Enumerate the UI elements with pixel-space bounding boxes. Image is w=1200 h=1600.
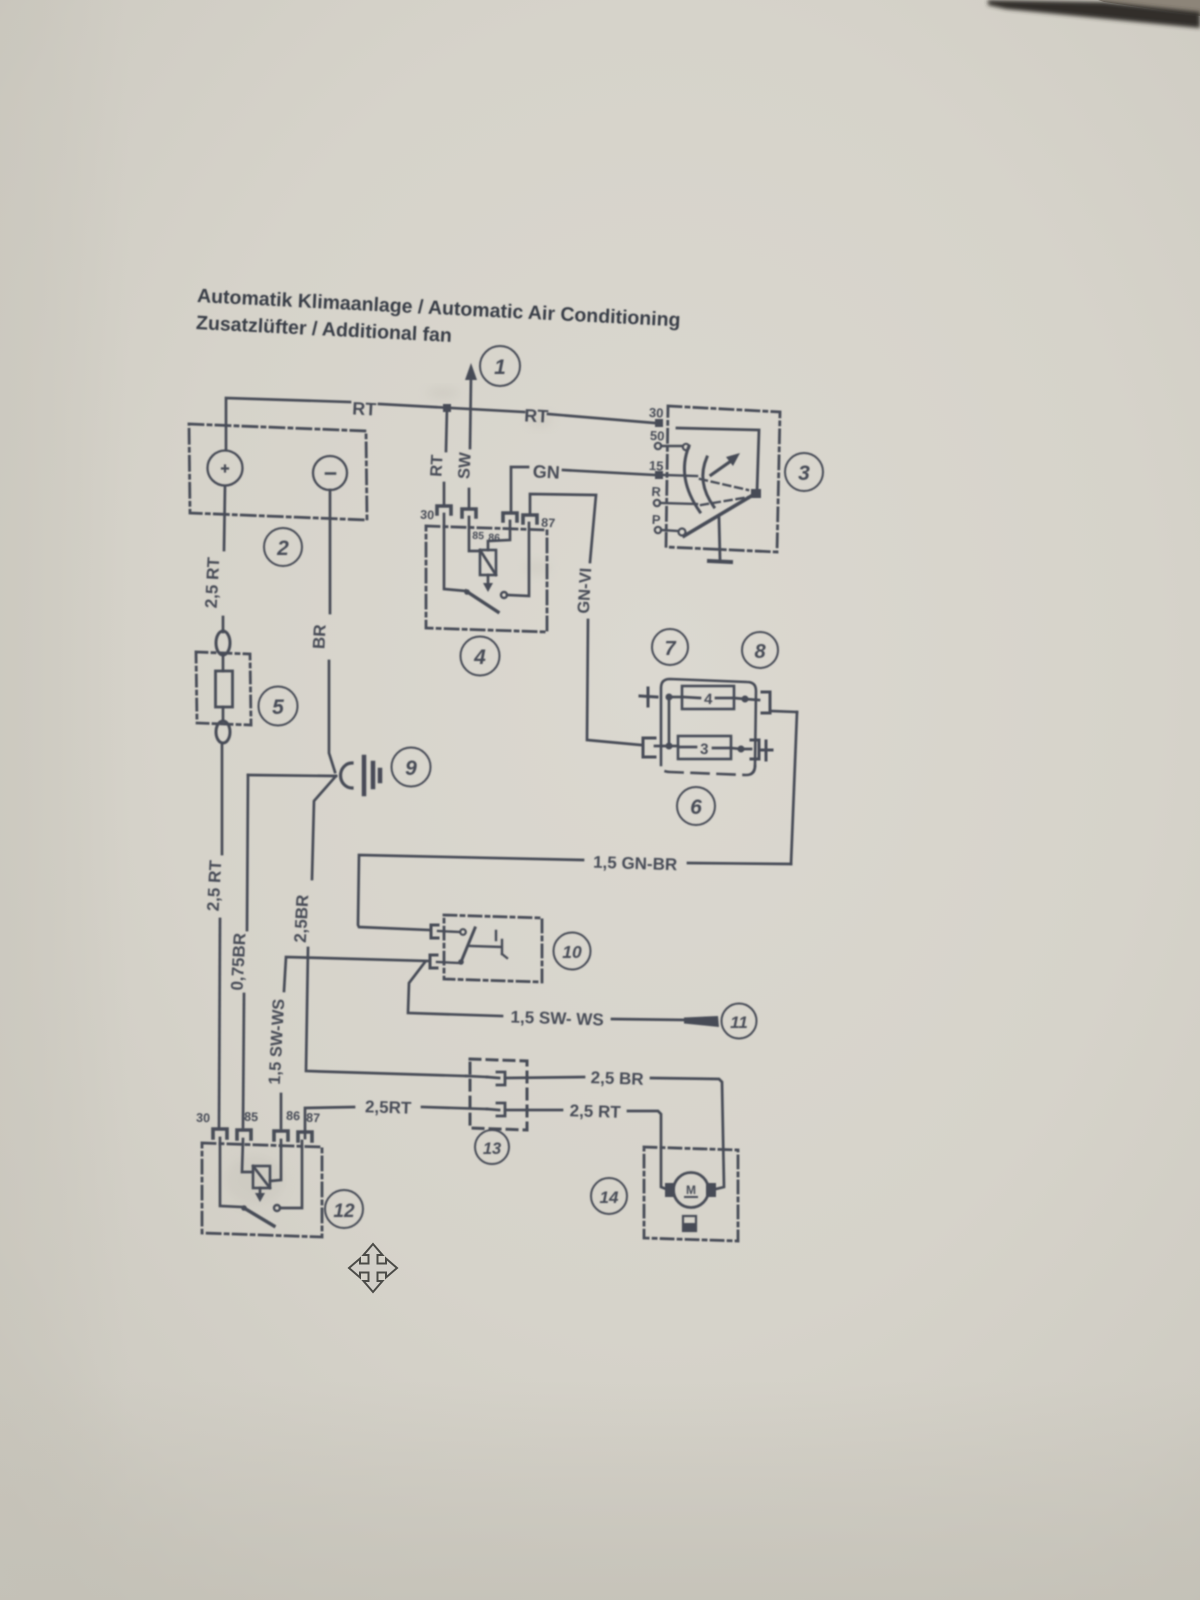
wire GN stub from relay4 86	[511, 467, 528, 513]
fuse 3 right connectors	[751, 740, 759, 759]
svg-text:GN-VI: GN-VI	[575, 567, 595, 614]
wire RT drop to relay4 30	[446, 408, 447, 451]
svg-text:30: 30	[196, 1111, 210, 1125]
fuse 5 box	[196, 652, 251, 725]
svg-text:5: 5	[272, 696, 284, 719]
svg-text:3: 3	[798, 462, 810, 485]
switch 10 internals	[438, 931, 460, 932]
battery minus terminal	[313, 456, 347, 490]
svg-text:R: R	[651, 484, 662, 499]
wire fuse4 output down to GN-BR run	[791, 712, 797, 864]
relay 4 box	[426, 526, 547, 632]
node dot left of fuse 3	[666, 743, 673, 750]
wire GN-VI from relay4 87 down	[530, 494, 596, 562]
circle 7	[652, 629, 688, 665]
title	[196, 285, 681, 347]
ignition wiper arcs	[684, 446, 700, 512]
svg-text:SW: SW	[455, 452, 474, 480]
svg-text:4: 4	[704, 691, 714, 708]
wire 2,5BR from connector9 down	[312, 776, 336, 879]
circle 1	[480, 346, 520, 386]
ignition arrow	[711, 461, 731, 475]
fuse 3	[669, 745, 678, 748]
wire GN to ignition 15	[563, 470, 655, 475]
svg-text:86: 86	[488, 532, 500, 545]
wire connector9 horizontal run	[248, 775, 336, 776]
circle 3	[785, 453, 823, 491]
svg-text:87: 87	[306, 1111, 320, 1125]
node dot right of fuse 4	[742, 696, 749, 703]
wire 2,5RT long down to relay12	[221, 743, 224, 854]
svg-text:85: 85	[244, 1110, 258, 1124]
svg-text:2,5RT: 2,5RT	[365, 1097, 412, 1117]
relay 12 box	[202, 1143, 322, 1237]
circle 6	[677, 787, 715, 825]
circle 5	[259, 687, 298, 726]
connector 9	[341, 757, 380, 794]
circle 8	[742, 632, 778, 668]
wire 1,5 GN-BR run	[688, 863, 791, 864]
svg-text:RT: RT	[352, 398, 377, 419]
fuse 5 element	[222, 655, 225, 721]
circle 10	[554, 933, 591, 970]
wire SW-WS from switch10 lower to left column	[284, 957, 430, 991]
svg-text:RT: RT	[427, 454, 446, 477]
wire 2,5BR into connector 13 upper	[466, 1076, 487, 1077]
connector 13 box	[470, 1059, 527, 1130]
faint smudges	[427, 388, 459, 398]
svg-text:2,5 RT: 2,5 RT	[204, 859, 226, 912]
wire 2,5RT from relay12 87 up and right	[305, 1107, 354, 1138]
node dot right of fuse 3	[738, 746, 745, 753]
circle 2	[264, 528, 302, 566]
svg-text:2,5 BR: 2,5 BR	[590, 1068, 643, 1089]
vertical link fuse4-fuse3 input	[668, 697, 671, 746]
svg-text:4: 4	[473, 646, 486, 669]
wire 2,5 RT from 13 to fan motor	[505, 1109, 562, 1112]
svg-text:10: 10	[562, 942, 582, 962]
wire 2,5RT battery to fuse	[224, 486, 225, 550]
node junction dot	[443, 404, 451, 412]
ignition lever from P	[684, 495, 753, 536]
wire BR battery minus down	[329, 490, 332, 613]
wire 0,75BR from connector9 run down to relay12 85	[247, 775, 248, 930]
fuse 4 left connector bar	[640, 688, 657, 706]
relay 4 internals: switch from 30	[444, 514, 466, 591]
svg-text:30: 30	[649, 405, 664, 421]
move cursor overlay	[349, 1244, 397, 1292]
switch 10 lower connector	[430, 955, 437, 968]
relay 4 coil	[480, 550, 496, 575]
circle 12	[325, 1190, 363, 1228]
svg-text:1: 1	[494, 356, 506, 379]
fan motor bottom symbol	[683, 1216, 696, 1231]
circle 14	[591, 1178, 627, 1214]
fan motor 14 box	[644, 1147, 738, 1241]
svg-text:6: 6	[690, 796, 702, 819]
svg-text:13: 13	[483, 1140, 501, 1158]
circle 4	[461, 637, 500, 676]
node dot left of fuse 4	[666, 694, 673, 701]
battery plus terminal	[208, 451, 243, 486]
node 1 arrow (wire continues marker)	[470, 377, 471, 448]
wire SW lower segment to relay4 85	[468, 489, 471, 507]
node 30 dot	[655, 419, 663, 427]
thermo switch 10 box	[444, 915, 542, 982]
svg-text:1,5 GN-BR: 1,5 GN-BR	[593, 853, 678, 875]
svg-text:14: 14	[600, 1188, 619, 1207]
circle 11	[722, 1004, 757, 1039]
svg-text:30: 30	[420, 508, 435, 523]
screen top edge dark band	[1098, 0, 1200, 16]
connector 13 upper blade	[487, 1072, 505, 1085]
svg-text:1,5 SW- WS: 1,5 SW- WS	[510, 1008, 604, 1030]
svg-text:7: 7	[664, 638, 676, 660]
switch 10 upper connector	[431, 925, 438, 938]
svg-text:50: 50	[650, 428, 665, 444]
svg-text:2,5 RT: 2,5 RT	[569, 1101, 621, 1122]
relay 4 contact circle to 87	[501, 592, 507, 598]
svg-text:86: 86	[286, 1109, 300, 1123]
svg-text:12: 12	[333, 1201, 355, 1222]
wire SW-WS run to node 11	[408, 962, 502, 1016]
ignition pivot	[751, 489, 761, 498]
svg-text:87: 87	[541, 516, 556, 531]
fuse 4 output connector	[762, 692, 770, 713]
fuse 3 left connector	[643, 738, 655, 757]
svg-text:M: M	[686, 1183, 696, 1197]
relay 4 terminal 86	[503, 513, 517, 521]
ignition switch 3 box	[666, 406, 780, 552]
fan motor circle	[674, 1173, 709, 1208]
svg-text:2,5 RT: 2,5 RT	[202, 556, 224, 609]
svg-text:P: P	[652, 512, 662, 527]
svg-text:11: 11	[730, 1013, 748, 1032]
svg-text:3: 3	[700, 741, 709, 758]
fuse 5 ferrule top	[216, 631, 230, 655]
relay 12 contact circle to 87	[274, 1205, 280, 1211]
svg-text:BR: BR	[309, 624, 329, 650]
wire 2,5 BR from 13 to fan motor	[505, 1077, 584, 1078]
svg-text:8: 8	[754, 641, 766, 663]
svg-text:2: 2	[276, 537, 289, 560]
connector 13 lower blade	[487, 1103, 505, 1116]
svg-text:0,75BR: 0,75BR	[228, 932, 250, 991]
relay 12 coil	[253, 1166, 270, 1188]
svg-text:RT: RT	[524, 405, 549, 426]
battery 2 box	[189, 424, 367, 520]
wire RT bus from battery plus	[226, 398, 350, 450]
ignition dashed wiper positions	[700, 479, 748, 490]
ignition inner body	[677, 428, 759, 492]
fan motor terminals	[665, 1183, 675, 1197]
fuse 4	[669, 696, 682, 699]
svg-text:85: 85	[472, 530, 484, 543]
relay 4 terminal 85	[462, 509, 476, 517]
relay 4 terminal 87	[523, 515, 537, 523]
svg-text:2,5BR: 2,5BR	[291, 894, 312, 943]
svg-text:GN: GN	[532, 461, 560, 482]
wire RT bus right to ignition switch	[548, 414, 655, 423]
wire RT bus middle	[379, 404, 524, 412]
circle 13	[475, 1130, 509, 1164]
fuse 5 ferrule bottom	[216, 721, 230, 743]
fuse box 6 outline	[661, 679, 756, 766]
ignition lock column line	[719, 518, 720, 559]
circle 9	[392, 748, 431, 787]
relay 12 internals: switch from 30	[220, 1138, 242, 1207]
svg-text:9: 9	[405, 757, 417, 780]
relay 4 terminal 30	[437, 506, 451, 514]
